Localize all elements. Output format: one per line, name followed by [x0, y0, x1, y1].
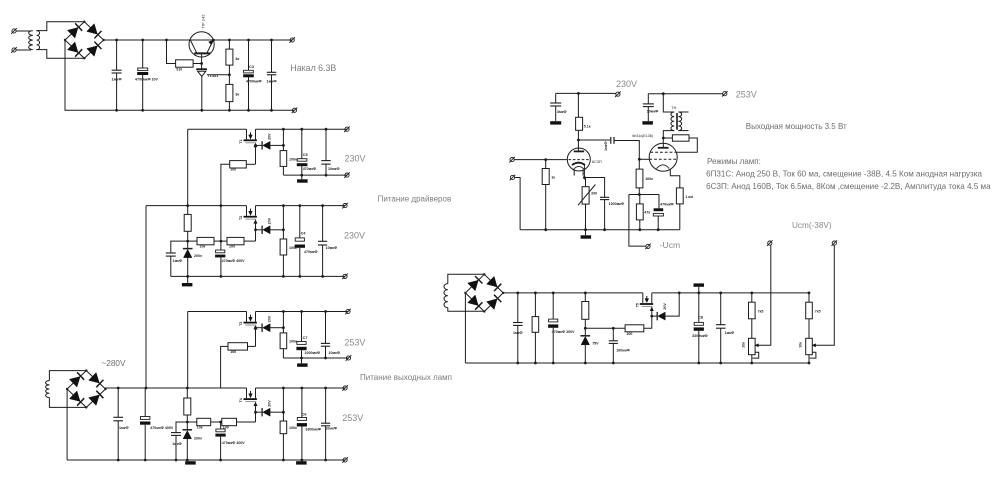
svg-text:6П31С: Анод 250 В, Ток 60 ма,: 6П31С: Анод 250 В, Ток 60 ма, смещение -…	[706, 170, 982, 179]
label 470мкФ 400V (cell2)	[222, 259, 246, 263]
junction zstack node cell2	[186, 240, 189, 243]
junction 47к at bus	[638, 228, 641, 231]
wire zener to reg node	[269, 144, 284, 146]
wire T3 gate chain down to cell4 rail	[221, 346, 228, 388]
svg-text:20V: 20V	[663, 303, 667, 310]
wire grid node to tube	[639, 158, 649, 160]
label 1мкФ (C1)	[112, 78, 123, 82]
junction output grid node	[638, 158, 641, 161]
wire TH secondary top stub	[678, 111, 688, 113]
transformer TH primary	[671, 112, 674, 131]
wire rail T3 left segment	[188, 311, 247, 313]
svg-text:~280V: ~280V	[102, 359, 126, 368]
wire bias gate chain	[585, 327, 625, 329]
wire rail T4 right segment	[256, 387, 346, 389]
wire V2 anode link	[662, 138, 664, 143]
label Режимы ламп:	[707, 157, 761, 166]
label 100 (T1 gate)	[230, 168, 236, 172]
label C5	[303, 153, 308, 157]
junction 10мкФ bottom cell4	[324, 459, 327, 462]
transistor T4 (series pass MOSFET)	[244, 388, 258, 406]
ground cell3	[297, 363, 308, 366]
svg-text:253V: 253V	[342, 413, 363, 423]
wire divider to zstack node cell4	[187, 421, 197, 423]
label TIP 142 (Q1)	[200, 14, 205, 29]
junction pot bottom (pot2)	[808, 362, 811, 365]
svg-text:470мкФ 400V: 470мкФ 400V	[222, 441, 246, 445]
junction C2 bottom	[141, 109, 144, 112]
wire bias rail	[629, 194, 659, 196]
transformer TR1 secondary winding	[37, 31, 40, 50]
label 6С3П line	[706, 182, 991, 191]
resistor R 1 ом	[676, 188, 683, 204]
resistor R screen	[672, 135, 689, 141]
label T1	[239, 139, 243, 143]
wire zener tap to zener	[256, 229, 263, 231]
label 470мкФ 400V (cell4)	[222, 441, 246, 445]
junction driver anode node	[577, 139, 580, 142]
transistor Q1 TIP142	[189, 32, 214, 57]
junction chain pot1 at rail	[750, 292, 753, 295]
junction 10мкФ bottom cell2	[321, 275, 324, 278]
label 1мкФ (cell4)	[172, 442, 182, 446]
label 100мкФ	[616, 349, 630, 353]
label C6	[302, 413, 307, 417]
tube V1 heater dome	[573, 166, 585, 170]
output terminal 253V#2 +	[342, 385, 348, 391]
resistor 100к (T3) leads	[282, 328, 284, 358]
wire rail T2 right segment	[256, 205, 346, 207]
wire screen loop	[676, 138, 697, 152]
output terminal heater -	[292, 108, 298, 114]
resistor feed cell4 leads	[186, 388, 188, 430]
junction bleeder rail	[534, 292, 537, 295]
wire TR1 secondary top to bridge	[36, 22, 84, 31]
tube V2 heater dome	[656, 165, 669, 169]
wire cap 3мкФ amp	[555, 93, 557, 121]
BR3 diode D2 (top-right edge)	[487, 276, 502, 291]
label 470мкФ (C4 cell2)	[304, 250, 318, 254]
resistor R 47к	[636, 204, 643, 220]
transformer TR3 winding	[444, 284, 448, 308]
input terminal X1	[11, 28, 17, 34]
svg-text:Питание драйверов: Питание драйверов	[378, 194, 452, 203]
capacitor C4cell leads	[299, 206, 301, 277]
label 253V (amp)	[736, 90, 757, 100]
junction reg node T2	[282, 228, 285, 231]
zener diode VD T2 20V	[262, 226, 270, 234]
wire pot bottom (pot2)	[808, 355, 810, 363]
resistor 7к5 (pot2)	[806, 302, 813, 319]
label Накал 6.3В	[290, 63, 336, 73]
wire base feed	[167, 40, 176, 64]
wire TH primary top	[663, 94, 674, 112]
label 6п31с(EL36)	[632, 134, 653, 138]
label 253V (cell4)	[342, 413, 363, 423]
svg-text:1мкФ: 1мкФ	[725, 331, 735, 335]
tube V1 cathode	[572, 163, 585, 165]
label TH	[671, 106, 676, 110]
wire reg node up to rail	[282, 206, 284, 230]
junction C3 bottom	[247, 109, 250, 112]
capacitor 3мкФ amp	[550, 103, 561, 106]
wire zener to reg node	[269, 229, 284, 231]
label 20V (T4)	[268, 400, 272, 407]
resistor R 100 (T1 gate)	[230, 161, 247, 168]
output terminal 230V#2 -	[342, 274, 348, 280]
resistor R 100к grid leads	[638, 159, 640, 194]
zener diode VD T1 20V	[262, 141, 270, 149]
wire bias bottom rail	[465, 362, 809, 364]
capacitor 100мкФ	[609, 341, 618, 344]
capacitor C 10мкФ cell1	[321, 161, 330, 165]
svg-text:200v: 200v	[194, 436, 202, 440]
resistor feed cell2 leads	[187, 206, 189, 249]
ground amp bus	[581, 235, 592, 238]
BR2 corner junctions	[66, 369, 107, 408]
capacitor C8 leads	[698, 293, 700, 363]
junction C6 rail	[301, 387, 304, 390]
BR2 diode D2 (top-right edge)	[89, 373, 104, 388]
BR2 diode D3 (left-bottom edge)	[70, 391, 85, 406]
junction reg node at rail	[282, 310, 285, 313]
label 1мкФ (cell2)	[173, 259, 183, 263]
junction base feed	[165, 39, 168, 42]
svg-text:100: 100	[626, 332, 632, 336]
junction trimmer at bus	[584, 228, 587, 231]
capacitor C4	[267, 72, 276, 75]
label C3	[249, 65, 254, 69]
wire bias to -Ucm	[629, 195, 646, 247]
svg-text:5.1к: 5.1к	[584, 124, 591, 128]
label 100 (cell4 divider)	[223, 425, 229, 429]
tube V2 control grid	[649, 158, 677, 160]
junction C1 bottom	[115, 109, 118, 112]
output terminal 253V#1 -	[346, 355, 352, 361]
label C4 (cell2)	[301, 231, 307, 235]
resistor bias feed leads	[584, 293, 586, 336]
label C7	[303, 336, 308, 340]
wire heater +rail	[104, 39, 293, 41]
svg-text:47к: 47к	[644, 210, 650, 214]
svg-text:TIP 142: TIP 142	[200, 14, 205, 29]
wire reg node up to rail	[282, 388, 284, 412]
wire divider to zstack node	[188, 240, 197, 242]
label T3	[239, 322, 243, 326]
capacitor 10мкФ cell2 leads	[322, 206, 324, 277]
wire zstack to bottom cell2	[187, 258, 189, 277]
wire zener tap to zener	[256, 327, 263, 329]
wire 1 ом to bus	[679, 204, 681, 230]
zener diode VD cell4 200v	[183, 430, 193, 439]
resistor R 1к leads	[545, 160, 547, 230]
wire 253V rail amp	[648, 93, 722, 95]
svg-text:3300мкФ: 3300мкФ	[692, 334, 708, 338]
label 510 (R1)	[176, 68, 182, 72]
pot wiper arrow (pot1)	[755, 344, 758, 347]
svg-text:Ucm(-38V): Ucm(-38V)	[792, 221, 832, 230]
capacitor C7 (electrolytic)	[296, 342, 306, 351]
wire divider mid link	[214, 240, 227, 242]
resistor R 5.1к	[576, 117, 583, 130]
capacitor 470мкФ 200V	[548, 319, 558, 328]
capacitor 1000мкФ cathode	[600, 197, 609, 199]
label 100к (T2)	[289, 246, 297, 250]
svg-text:T5: T5	[635, 303, 639, 307]
resistor 100к (T1)	[280, 151, 287, 167]
svg-text:6С3П: Анод 160В, Ток 6.5ма, 8К: 6С3П: Анод 160В, Ток 6.5ма, 8Ком ,смещен…	[706, 182, 991, 191]
resistor Rd2b 100	[227, 237, 244, 244]
transistor T3 (series pass MOSFET)	[244, 312, 258, 330]
trimmer R 200	[578, 185, 595, 206]
svg-text:10мкФ: 10мкФ	[647, 110, 659, 114]
junction divider mid	[228, 73, 231, 76]
label -Ucm	[660, 240, 681, 250]
bridge rectifier BR2: diamond	[67, 371, 105, 408]
junction bias rail at 100к	[638, 193, 641, 196]
junction C4 top	[270, 39, 273, 42]
resistor 7к5 (pot1)	[749, 302, 756, 319]
wire screen resistor to anode node	[663, 137, 672, 139]
capacitor 1мкФ bias leads	[517, 293, 519, 363]
wire feed riser cell2-cell4	[145, 206, 147, 388]
svg-text:C5: C5	[303, 153, 308, 157]
svg-text:230V: 230V	[344, 231, 365, 241]
svg-text:1к: 1к	[551, 176, 555, 180]
resistor R 100 (T3 gate)	[228, 343, 248, 350]
svg-text:TH: TH	[671, 106, 676, 110]
junction 100мкФ bottom	[612, 362, 615, 365]
BR2 diode D1 (left-top edge)	[70, 372, 85, 387]
wire T1 gate to resistor	[246, 163, 255, 165]
wire cell4 bottom	[67, 459, 345, 461]
junction cap1 bottom cell4	[175, 459, 178, 462]
capacitor 10мкФ cell4	[321, 423, 330, 426]
output terminal 253V#2 -	[342, 457, 348, 463]
ground C8 (above rail)	[694, 283, 705, 293]
wire pot wiper (pot1)	[755, 245, 771, 345]
junction C7 rail	[300, 310, 303, 313]
svg-text:100к: 100к	[289, 157, 297, 161]
svg-text:230V: 230V	[616, 79, 637, 89]
junction riser at cell4 rail	[145, 387, 148, 390]
wire cell4 rail from bridge	[106, 388, 147, 389]
label Ucm(-38V)	[792, 221, 832, 230]
terminal -Ucm	[645, 244, 651, 250]
wire pot wiper (pot2)	[812, 245, 834, 345]
junction zener tap T1	[254, 144, 257, 147]
wire T4 gate down	[255, 402, 257, 422]
transformer TH core	[676, 113, 677, 130]
output terminal 253V#1 +	[345, 309, 351, 315]
label TL431 (U1)	[208, 74, 219, 78]
capacitor C3 (electrolytic)	[243, 70, 254, 77]
svg-text:1мкФ: 1мкФ	[119, 426, 129, 430]
resistor R 5.1к leads	[577, 93, 579, 140]
wire T1 gate chain down to cell2 rail	[221, 164, 230, 205]
label 3мкФ (amp)	[557, 110, 567, 114]
junction zstack bottom cell2	[186, 275, 189, 278]
label 10к (cell4 divider)	[197, 425, 203, 429]
junction 1мкФ out bottom	[719, 362, 722, 365]
transistor T2 (series pass MOSFET)	[244, 206, 258, 224]
capacitor 10мкФ 253V	[643, 104, 654, 107]
junction chain pot2 at rail	[808, 292, 811, 295]
svg-text:100: 100	[230, 168, 236, 172]
junction divider top	[228, 39, 231, 42]
wire rail T2 left segment	[146, 205, 247, 207]
junction bias zener node	[584, 327, 587, 330]
label Питание выходных ламп	[360, 373, 452, 382]
svg-text:10мкФ: 10мкФ	[326, 246, 338, 250]
wire feed riser cell1	[187, 129, 189, 205]
svg-text:T1: T1	[239, 139, 243, 143]
ground cell3 stub	[301, 358, 303, 363]
junction C8 rail	[697, 292, 700, 295]
wire pot bottom (pot1)	[751, 355, 753, 363]
capacitor 470мкФ 400V bridge leads	[144, 388, 146, 460]
junction 1к at bus	[544, 228, 547, 231]
svg-text:7к5: 7к5	[815, 310, 821, 314]
wire zener tap to zener	[256, 411, 263, 413]
svg-text:10к: 10к	[197, 425, 203, 429]
pot wiper arrow (pot2)	[812, 344, 815, 347]
capacitor C6 leads	[301, 388, 303, 460]
junction bypass at bus	[603, 228, 606, 231]
label 7к5 (pot2)	[815, 310, 821, 314]
capacitor 1мкФ coupling	[611, 137, 614, 144]
zener diode VD bias 20V	[657, 312, 665, 320]
wire rail T3 right segment	[256, 311, 349, 313]
junction feed node at cell4 rail	[186, 387, 189, 390]
svg-text:510: 510	[176, 68, 182, 72]
svg-text:10к: 10к	[200, 244, 206, 248]
svg-text:1мкФ: 1мкФ	[513, 331, 523, 335]
potentiometer 10к (pot1)	[749, 338, 756, 354]
BR2 diode D4 (bottom-right edge)	[89, 391, 104, 406]
resistor R3 3к	[226, 84, 233, 101]
transformer TR2 winding	[46, 381, 50, 398]
junction anode/TH node	[662, 137, 665, 140]
svg-text:230V: 230V	[345, 154, 366, 164]
label 1мкФ (C4)	[267, 79, 278, 83]
junction bias zener tap	[650, 315, 653, 318]
svg-text:20V: 20V	[268, 400, 272, 407]
BR1 diode D3 (left-bottom edge)	[68, 42, 83, 57]
svg-text:1000мкФ: 1000мкФ	[609, 202, 625, 206]
label 20V (T3)	[268, 315, 272, 322]
wire rail T4 left segment	[146, 387, 247, 389]
junction U1 anode at -rail	[200, 109, 203, 112]
zener diode VD cell2 200v	[183, 249, 193, 258]
label 10к (pot1)	[741, 342, 745, 348]
transistor T5 (series pass MOSFET)	[640, 293, 654, 311]
resistor R 1к	[542, 169, 549, 185]
svg-text:T2: T2	[239, 216, 243, 220]
input terminal amp 1	[509, 157, 515, 163]
svg-text:470мкФ: 470мкФ	[304, 250, 318, 254]
capacitor C7 leads	[301, 312, 303, 359]
BR1 diode D1 (left-top edge)	[68, 23, 83, 38]
capacitor 470мкФ 400V bridge	[140, 417, 150, 425]
capacitor 1мкФ cell2	[166, 253, 176, 256]
resistor R 47к leads	[639, 195, 641, 230]
svg-text:1мкФ: 1мкФ	[172, 442, 182, 446]
svg-text:3мкФ: 3мкФ	[557, 110, 567, 114]
label 470мкФ (C5)	[303, 167, 317, 171]
junction 100к bottom cell4	[282, 459, 285, 462]
junction elec top at rail cell2	[220, 204, 223, 207]
svg-text:3к: 3к	[235, 92, 239, 96]
junction 1мкФ out rail	[719, 292, 722, 295]
label 230V (amp)	[616, 79, 637, 89]
svg-text:1мкФ: 1мкФ	[173, 259, 183, 263]
svg-text:C6: C6	[302, 413, 307, 417]
junction elec bottom cell2	[220, 275, 223, 278]
svg-text:20V: 20V	[268, 217, 272, 224]
junction C1 top	[115, 39, 118, 42]
svg-text:100к: 100к	[289, 426, 297, 430]
label 470мкФ 400V (bridge)	[150, 426, 174, 430]
BR3 diode D3 (left-bottom edge)	[468, 295, 483, 310]
label 10к (cell2 divider)	[200, 244, 206, 248]
svg-text:253V: 253V	[736, 90, 757, 100]
wire X2 to transformer primary	[16, 49, 31, 51]
junction pot bottom (pot1)	[750, 362, 753, 365]
BR3 diode D1 (left-top edge)	[468, 276, 483, 291]
label 200 (trimmer)	[591, 192, 597, 196]
svg-text:-Ucm: -Ucm	[660, 240, 681, 250]
wire pot hook (pot2)	[810, 352, 816, 358]
BR3 corner junctions	[464, 273, 504, 313]
capacitor 10мкФ cell3 leads	[325, 312, 327, 359]
svg-text:Питание выходных ламп: Питание выходных ламп	[360, 373, 452, 382]
label 100 (cell2 divider)	[229, 244, 235, 248]
label 253V (cell3)	[344, 337, 365, 347]
wire rail T1 left segment	[188, 128, 247, 130]
junction C4 rail cell2	[298, 204, 301, 207]
label 4700мкФ 10V (C2)	[135, 78, 159, 82]
label 230V (cell1)	[345, 154, 366, 164]
label 100 (T3 gate)	[230, 350, 236, 354]
tube V1 6С3П envelope	[567, 148, 590, 171]
resistor R2 3к	[226, 49, 233, 65]
label 1к	[551, 176, 555, 180]
resistor Rd4b 100	[222, 418, 237, 425]
capacitor 100мкФ leads	[612, 328, 614, 363]
capacitor 1мкФ out bias	[716, 325, 726, 329]
label 1мкФ (out bias)	[725, 331, 735, 335]
resistor feed cell2	[184, 214, 191, 231]
wire cathode bypass	[584, 178, 604, 230]
wire divider mid link cell4	[211, 421, 222, 423]
wire reg node up to rail	[282, 312, 284, 328]
junction cathode node V1	[583, 176, 586, 179]
junction bleeder bottom	[534, 362, 537, 365]
junction 10мкФ at rail cell1	[325, 128, 328, 131]
wire zener to reg node	[269, 411, 284, 413]
capacitor 470мкФ bias	[653, 208, 663, 216]
junction 1мкФ bias rail	[516, 292, 519, 295]
wire T2 gate down	[255, 220, 257, 241]
wire U1 ref to divider	[207, 74, 229, 76]
wire electrolytic divider cell4	[220, 422, 222, 460]
capacitor C2 (electrolytic)	[137, 68, 148, 75]
resistor Rd2a 10к	[197, 237, 214, 244]
capacitor 1мкФ out bias leads	[720, 293, 722, 363]
junction bias zener bottom	[584, 362, 587, 365]
label T4	[239, 398, 243, 402]
